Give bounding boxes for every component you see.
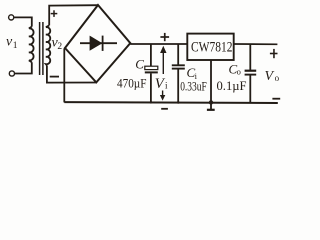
svg-text:0.1µF: 0.1µF [217, 78, 247, 93]
Vi arrowhead up [160, 46, 166, 53]
Vi arrowhead down [160, 95, 165, 101]
wire secondary bottom lead [47, 65, 96, 82]
capacitor C leads [150, 44, 152, 67]
ground symbol bar [207, 109, 215, 111]
svg-text:o: o [275, 73, 280, 83]
wire bridge minus output (left vertex down to ground bus) [63, 48, 65, 102]
minus sign below bus (Vi-) [161, 108, 168, 110]
capacitor Co leads [249, 44, 251, 71]
svg-text:0.33uF: 0.33uF [180, 80, 207, 94]
svg-text:1: 1 [13, 41, 18, 51]
capacitor C plates (electrolytic) [145, 66, 158, 69]
terminal top-left [9, 15, 14, 20]
regulator ground lead [210, 60, 212, 104]
diode triangle [91, 37, 101, 49]
junction dot C bottom [150, 101, 153, 104]
diode cathode bar [102, 36, 104, 51]
svg-text:V: V [265, 69, 275, 84]
svg-text:CW7812: CW7812 [191, 39, 233, 55]
Vi arrow up [162, 50, 164, 75]
bridge rectifier diamond [65, 5, 130, 82]
wire primary bottom [15, 62, 32, 73]
top rail: bridge right vertex to regulator [130, 43, 187, 45]
regulator box CW7812 [187, 34, 233, 60]
diode inside bridge: line [80, 42, 117, 44]
plus sign above rail (Vi+) [160, 36, 169, 38]
top rail: regulator to output [234, 43, 278, 45]
ground bus [64, 101, 277, 104]
secondary winding L2 [46, 25, 50, 65]
capacitor Co plates [245, 70, 257, 72]
svg-text:2: 2 [57, 42, 62, 52]
minus sign output (Vo-) [272, 98, 280, 100]
wire secondary top lead [49, 5, 98, 25]
core line left [39, 22, 41, 75]
minus sign near bridge left [50, 76, 59, 78]
capacitor Ci plates [172, 64, 185, 66]
Vi arrow down (below label) [162, 91, 164, 99]
wire primary top [14, 17, 32, 26]
junction dot regulator ground [209, 100, 213, 104]
svg-text:o: o [237, 67, 241, 77]
terminal bottom-left [9, 71, 14, 76]
junction dot Ci bottom [177, 101, 180, 104]
core line right [42, 22, 44, 75]
svg-text:C: C [135, 57, 144, 72]
ground symbol stub [210, 103, 212, 109]
primary winding L1 [29, 27, 34, 63]
plus sign near secondary top [51, 13, 58, 15]
capacitor Ci leads [177, 44, 179, 66]
plus sign output (Vo+) [270, 53, 278, 55]
svg-text:470µF: 470µF [117, 76, 147, 91]
